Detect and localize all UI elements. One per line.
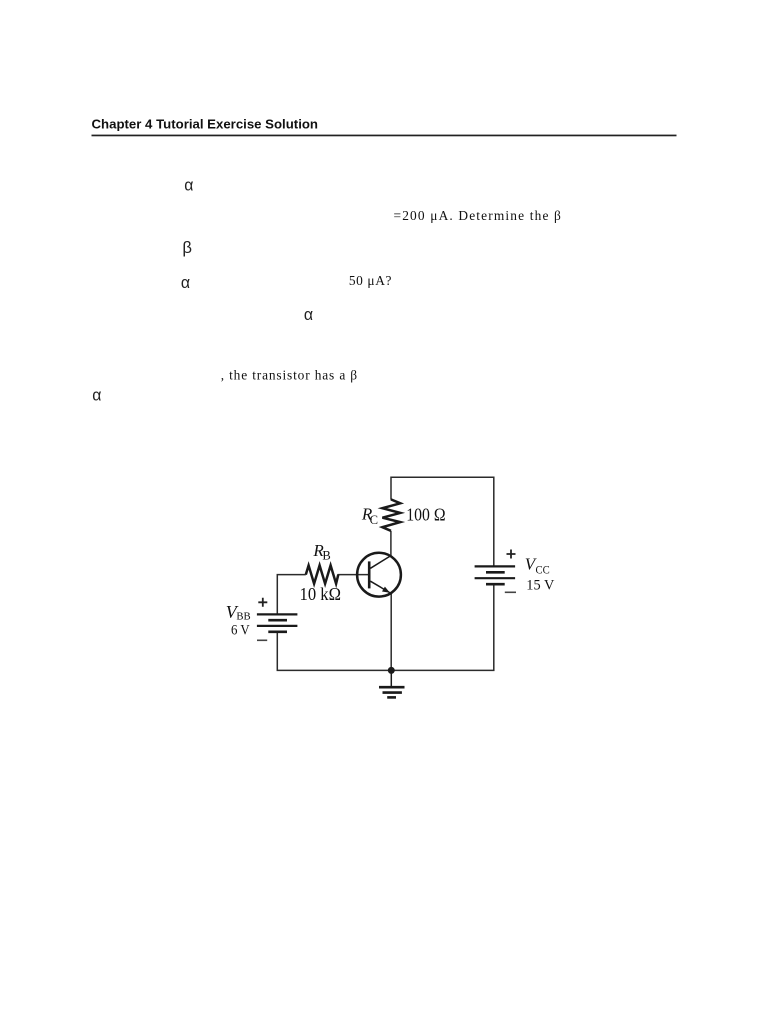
svg-text:Chapter 4 Tutorial Exercise So: Chapter 4 Tutorial Exercise Solution	[92, 116, 319, 131]
resistor RB (zigzag)	[306, 565, 339, 583]
svg-text:100 Ω: 100 Ω	[406, 504, 445, 524]
ground symbol	[379, 670, 405, 697]
svg-text:C: C	[370, 513, 378, 527]
svg-text:α: α	[92, 386, 101, 405]
minus sign VCC	[505, 591, 516, 593]
svg-text:α: α	[184, 176, 193, 195]
svg-text:CC: CC	[536, 565, 551, 577]
wire: emitter down to ground junction	[390, 594, 392, 671]
svg-text:B: B	[322, 549, 330, 563]
svg-text:15 V: 15 V	[526, 577, 554, 593]
resistor RC (zigzag)	[382, 499, 400, 530]
svg-text:BB: BB	[236, 611, 250, 623]
wire: RB to transistor base	[338, 574, 368, 576]
svg-text:, the transistor has a β: , the transistor has a β	[221, 367, 358, 382]
battery VCC	[475, 566, 515, 584]
transistor Q1 (NPN)	[357, 553, 401, 597]
svg-text:=200 μA. Determine the β: =200 μA. Determine the β	[394, 208, 563, 223]
svg-text:50 μA?: 50 μA?	[349, 273, 392, 288]
node: emitter/ground junction dot	[388, 667, 395, 674]
minus sign VBB	[257, 639, 267, 641]
plus sign VCC	[507, 550, 516, 559]
svg-text:β: β	[182, 238, 192, 257]
svg-text:α: α	[304, 305, 313, 324]
wire: RC bottom to collector	[390, 531, 392, 556]
svg-text:10 kΩ: 10 kΩ	[300, 584, 342, 604]
svg-text:6 V: 6 V	[231, 623, 250, 639]
heading rule	[92, 135, 677, 137]
wire: top rail from RC top to VCC branch (collector supply loop)	[391, 477, 494, 566]
plus sign VBB	[258, 598, 267, 607]
wire: bottom rail from VBB down-lead to VCC bottom	[277, 584, 494, 670]
wire: VBB top lead up and right to RB	[277, 575, 306, 615]
battery VBB	[257, 614, 298, 631]
svg-text:α: α	[181, 273, 190, 292]
